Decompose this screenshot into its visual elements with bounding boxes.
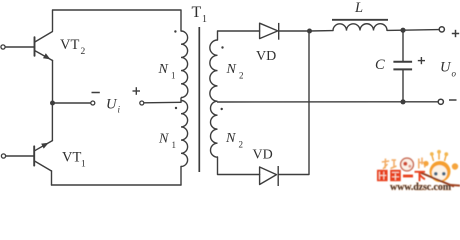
wire node C to plus output terminal: [403, 29, 439, 32]
svg-text:T: T: [192, 4, 202, 21]
svg-text:U: U: [440, 60, 452, 76]
svg-text:VT: VT: [60, 37, 79, 53]
watermark char zhao: [382, 159, 397, 170]
wire inductor to node C: [387, 29, 403, 31]
watermark mascot head: [430, 161, 451, 182]
minus sign output: [449, 99, 457, 101]
wire VT2 emitter to node A: [52, 61, 54, 104]
node C junction dot: [400, 28, 405, 33]
svg-text:N: N: [226, 62, 237, 77]
svg-text:1: 1: [171, 71, 176, 81]
watermark pen diagonal: [419, 172, 454, 187]
phase dot primary lower: [175, 107, 177, 109]
node A junction dot: [50, 101, 55, 106]
transformer secondary winding N2 lower: [211, 101, 218, 157]
svg-text:1: 1: [202, 14, 207, 25]
watermark text weiku yixia: [377, 170, 425, 181]
svg-text:2: 2: [81, 47, 86, 57]
wire VT1 collector drop: [51, 171, 53, 185]
terminal output plus: [439, 27, 444, 32]
node B junction dot: [307, 29, 312, 34]
svg-text:L: L: [354, 0, 363, 16]
svg-text:i: i: [118, 105, 121, 115]
svg-text:1: 1: [81, 160, 86, 170]
wire top rail left: [53, 10, 182, 31]
watermark char pian: [419, 158, 425, 169]
svg-text:VD: VD: [253, 148, 273, 163]
inductor L: [333, 24, 387, 31]
svg-text:N: N: [158, 62, 169, 77]
svg-text:C: C: [375, 57, 385, 73]
svg-text:N: N: [158, 132, 169, 147]
wire secondary center tap rail to minus output terminal: [218, 101, 439, 103]
transformer core: [198, 27, 200, 172]
phase dot secondary lower: [221, 108, 223, 110]
transformer primary winding N1 lower: [181, 98, 188, 167]
transformer secondary winding N2 upper: [210, 40, 218, 101]
svg-text:o: o: [452, 69, 457, 79]
diode VD2 bottom: [260, 166, 279, 186]
wire primary bottom lead: [180, 167, 182, 186]
wire diode VD1 cathode to node B: [279, 30, 310, 32]
phase dot primary upper: [174, 30, 176, 32]
plus sign Ui: [133, 87, 141, 95]
svg-text:N: N: [225, 131, 236, 146]
wire VT1 emitter riser: [51, 103, 53, 141]
terminal Ui minus: [91, 101, 95, 105]
wire secondary top lead to diode VD1 anode: [218, 31, 260, 40]
svg-text:2: 2: [239, 71, 244, 81]
svg-text:2: 2: [239, 140, 244, 150]
inductor core bar: [332, 19, 388, 21]
minus sign Ui: [92, 92, 100, 94]
wire node B to inductor: [310, 30, 334, 32]
transformer primary winding N1 upper: [181, 31, 188, 98]
terminal output minus: [438, 99, 443, 104]
capacitor C plates: [393, 62, 412, 70]
watermark badge circle: [401, 158, 414, 171]
transistor VT2: [1, 32, 53, 61]
phase dot secondary upper: [221, 46, 223, 48]
node D junction dot: [400, 99, 405, 104]
plus sign output: [452, 30, 459, 37]
wire plus terminal to primary center tap: [144, 101, 181, 104]
watermark mascot crown: [432, 153, 446, 161]
wire node A to minus terminal: [53, 102, 91, 104]
terminal Ui plus: [140, 101, 144, 105]
svg-text:VD: VD: [256, 49, 276, 64]
plus sign capacitor: [418, 57, 425, 64]
wire bottom rail: [52, 184, 182, 186]
wire capacitor top lead: [402, 30, 404, 62]
svg-text:VT: VT: [62, 150, 81, 166]
wire capacitor bottom lead: [402, 69, 404, 101]
wire diode VD2 cathode up to node B: [278, 31, 309, 175]
diode VD1 top: [260, 23, 279, 40]
svg-text:U: U: [106, 97, 118, 113]
transistor VT1: [1, 141, 52, 171]
watermark mascot hands: [423, 161, 428, 166]
wire secondary bottom lead to diode VD2 anode: [218, 157, 260, 175]
svg-text:1: 1: [172, 140, 177, 150]
svg-text:www.dzsc.com: www.dzsc.com: [390, 182, 452, 193]
